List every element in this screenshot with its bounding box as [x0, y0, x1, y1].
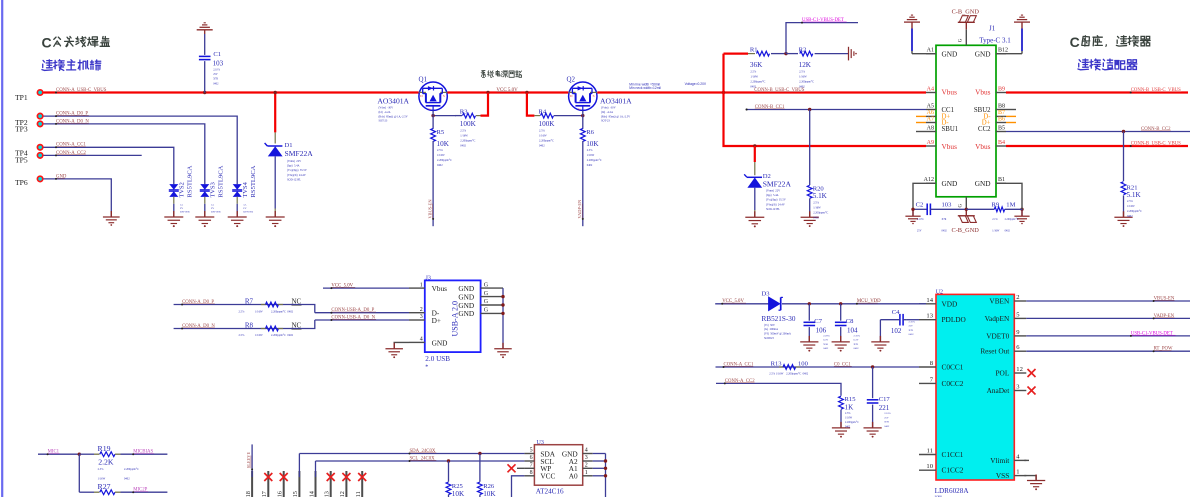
- svg-text:12: 12: [1016, 366, 1023, 373]
- svg-text:1/16W: 1/16W: [437, 154, 445, 157]
- svg-text:13: 13: [926, 313, 933, 320]
- svg-text:AO3401A: AO3401A: [600, 97, 632, 106]
- svg-text:SOD-123FL: SOD-123FL: [287, 178, 301, 181]
- svg-text:(Rds) 85mΩ @ 1A,-2.5V: (Rds) 85mΩ @ 1A,-2.5V: [379, 115, 408, 118]
- svg-text:2.5%: 2.5%: [98, 468, 104, 471]
- svg-text:103: 103: [213, 59, 224, 67]
- svg-text:AnaDet: AnaDet: [987, 386, 1010, 395]
- svg-text:MCU_VDD: MCU_VDD: [857, 299, 881, 304]
- svg-text:D3: D3: [762, 291, 771, 298]
- svg-text:C8: C8: [846, 318, 854, 325]
- svg-text:SLEEVE: SLEEVE: [246, 452, 251, 469]
- svg-text:2.200ppm/°C: 2.200ppm/°C: [813, 211, 828, 214]
- svg-text:2.5% 1/16W 2.200ppm/°C 040: 2.5% 1/16W 2.200ppm/°C 0402: [769, 372, 809, 375]
- svg-text:(Io) 200mA: (Io) 200mA: [764, 328, 778, 331]
- svg-text:VADP-EN: VADP-EN: [1154, 314, 1175, 319]
- svg-text:0402: 0402: [1005, 230, 1011, 233]
- svg-text:VCC: VCC: [540, 472, 555, 481]
- svg-text:1/16W: 1/16W: [539, 135, 547, 138]
- svg-text:C1CC1: C1CC1: [942, 450, 964, 459]
- svg-text:11: 11: [927, 448, 933, 455]
- svg-text:5: 5: [530, 448, 533, 454]
- svg-text:10K: 10K: [586, 140, 599, 148]
- svg-text:102: 102: [891, 327, 902, 335]
- svg-text:D1: D1: [285, 142, 293, 149]
- svg-text:GND: GND: [975, 50, 991, 59]
- svg-text:DFP1006: DFP1006: [180, 210, 190, 213]
- svg-text:CONN-USB-A_D0_N: CONN-USB-A_D0_N: [331, 315, 375, 320]
- svg-text:SMF22A: SMF22A: [763, 179, 792, 188]
- svg-text:GND: GND: [56, 174, 67, 179]
- svg-text:2.200ppm/°C: 2.200ppm/°C: [437, 159, 452, 162]
- svg-text:6: 6: [530, 455, 533, 461]
- svg-text:CONN-A_D0_N: CONN-A_D0_N: [182, 324, 215, 329]
- svg-text:A6: A6: [927, 110, 934, 116]
- svg-text:Vbus: Vbus: [432, 284, 448, 293]
- svg-text:1/16W: 1/16W: [587, 154, 595, 157]
- svg-text:B1: B1: [998, 177, 1005, 183]
- svg-text:25V: 25V: [884, 416, 889, 419]
- svg-text:1/16W: 1/16W: [255, 310, 263, 313]
- svg-text:B7: B7: [998, 110, 1005, 116]
- svg-text:0402: 0402: [587, 164, 593, 167]
- svg-text:1/16W: 1/16W: [98, 478, 106, 481]
- svg-text:(Vdss) -30V: (Vdss) -30V: [379, 107, 394, 110]
- svg-text:0402: 0402: [845, 426, 851, 429]
- svg-text:Min neck width=12mil: Min neck width=12mil: [629, 86, 661, 90]
- svg-text:36K: 36K: [750, 61, 763, 69]
- svg-text:2.5%: 2.5%: [750, 71, 756, 74]
- svg-text:J1: J1: [989, 24, 996, 32]
- svg-text:2.5%: 2.5%: [845, 412, 851, 415]
- svg-text:(Vc@Ipp) 35.5V: (Vc@Ipp) 35.5V: [766, 199, 786, 202]
- svg-text:CONN-B_USB-C_VBUS: CONN-B_USB-C_VBUS: [1131, 88, 1181, 93]
- svg-text:RS5TL9CA: RS5TL9CA: [218, 165, 225, 197]
- svg-text:14: 14: [926, 297, 933, 304]
- svg-text:12: 12: [339, 491, 346, 497]
- svg-text:CONN-A_CC1: CONN-A_CC1: [724, 362, 754, 367]
- svg-text:NC: NC: [292, 321, 302, 329]
- svg-text:CONN-A_CC2: CONN-A_CC2: [725, 379, 755, 384]
- svg-text:TP6: TP6: [15, 178, 28, 187]
- svg-text:B6: B6: [998, 116, 1005, 122]
- svg-text:3: 3: [585, 455, 588, 461]
- svg-text:18: 18: [245, 491, 252, 497]
- svg-text:(Ipp) 5.4A: (Ipp) 5.4A: [287, 165, 300, 168]
- svg-text:2: 2: [420, 307, 423, 313]
- svg-text:10K: 10K: [452, 490, 465, 497]
- svg-text:Vbus: Vbus: [975, 142, 991, 151]
- svg-text:(Rds) 85mΩ @ 1A,-2.5V: (Rds) 85mΩ @ 1A,-2.5V: [601, 115, 630, 118]
- svg-text:2.200ppm/°C: 2.200ppm/°C: [460, 140, 475, 143]
- svg-text:0402: 0402: [884, 425, 890, 428]
- svg-text:7: 7: [530, 463, 533, 469]
- svg-text:221: 221: [879, 404, 890, 412]
- svg-text:0402: 0402: [213, 82, 219, 85]
- svg-text:A4: A4: [927, 86, 934, 92]
- svg-text:DFP1006: DFP1006: [211, 210, 221, 213]
- svg-text:POL: POL: [996, 369, 1010, 378]
- svg-text:2.10%: 2.10%: [917, 218, 925, 221]
- svg-text:2.200ppm/°C: 2.200ppm/°C: [845, 421, 859, 424]
- svg-text:R2: R2: [799, 46, 807, 53]
- svg-text:(Vrms) 22V: (Vrms) 22V: [287, 160, 301, 163]
- svg-text:100K: 100K: [539, 120, 556, 128]
- svg-text:100K: 100K: [460, 120, 477, 128]
- svg-text:CONN-B_USB-C_VBUS: CONN-B_USB-C_VBUS: [754, 88, 804, 93]
- svg-text:CONN-USB-A_D0_P: CONN-USB-A_D0_P: [331, 308, 374, 313]
- svg-text:(Id) -4.2A: (Id) -4.2A: [379, 111, 391, 114]
- svg-text:J3: J3: [426, 276, 431, 282]
- svg-text:C0CC1: C0CC1: [942, 363, 964, 372]
- svg-text:U2: U2: [936, 290, 943, 296]
- svg-text:RB521S-30: RB521S-30: [762, 315, 796, 323]
- svg-text:AT24C16: AT24C16: [536, 488, 564, 496]
- svg-text:VBUS-EN: VBUS-EN: [428, 199, 433, 219]
- svg-text:A1: A1: [927, 48, 934, 54]
- svg-text:2.200ppm/°C: 2.200ppm/°C: [1127, 210, 1142, 213]
- svg-text:2.5%: 2.5%: [437, 149, 443, 152]
- svg-text:VBEN: VBEN: [989, 297, 1010, 306]
- svg-text:1/16W: 1/16W: [845, 416, 853, 419]
- svg-text:CONN-A_CC2: CONN-A_CC2: [56, 151, 86, 156]
- svg-text:2.200ppm/°C: 2.200ppm/°C: [1005, 218, 1019, 221]
- svg-text:2.2K: 2.2K: [98, 457, 114, 466]
- svg-text:GND: GND: [458, 309, 474, 318]
- svg-text:14: 14: [308, 491, 315, 497]
- svg-text:X7R: X7R: [213, 78, 218, 81]
- svg-text:Type-C 3.1: Type-C 3.1: [979, 36, 1011, 44]
- svg-text:SOT-23: SOT-23: [601, 120, 610, 123]
- svg-text:CONN-B_CC2: CONN-B_CC2: [1141, 127, 1171, 132]
- svg-text:R9: R9: [992, 201, 1000, 208]
- svg-text:2.200ppm/°C 0402: 2.200ppm/°C 0402: [271, 334, 294, 337]
- svg-text:(Vbr@It) 24.4V: (Vbr@It) 24.4V: [287, 174, 306, 177]
- svg-text:C0_CC1: C0_CC1: [834, 362, 851, 367]
- svg-text:2.10%: 2.10%: [884, 412, 890, 415]
- svg-text:C4: C4: [892, 309, 900, 316]
- svg-text:MICBIAS: MICBIAS: [133, 450, 153, 455]
- svg-text:(Vc@Ipp) 35.5V: (Vc@Ipp) 35.5V: [287, 169, 307, 172]
- svg-text:X7R: X7R: [884, 421, 889, 424]
- svg-text:NC: NC: [292, 297, 302, 305]
- svg-text:3: 3: [420, 314, 423, 320]
- svg-text:Vlimit: Vlimit: [990, 456, 1009, 465]
- svg-text:Vbus: Vbus: [942, 142, 958, 151]
- svg-text:VSS: VSS: [996, 471, 1009, 480]
- svg-text:(Vr) 30V: (Vr) 30V: [764, 324, 775, 327]
- svg-text:X5R: X5R: [823, 343, 828, 346]
- svg-text:SDA_24C0X: SDA_24C0X: [410, 449, 436, 454]
- svg-text:6.3V: 6.3V: [823, 339, 828, 342]
- svg-text:B8: B8: [998, 103, 1005, 109]
- svg-text:2: 2: [1016, 294, 1019, 301]
- svg-text:2.200ppm/°C 0402: 2.200ppm/°C 0402: [271, 310, 294, 313]
- svg-text:25V: 25V: [909, 325, 914, 328]
- svg-text:1: 1: [585, 470, 588, 476]
- svg-text:R8: R8: [245, 321, 254, 329]
- svg-text:C: C: [42, 34, 52, 50]
- svg-text:TP3: TP3: [15, 125, 28, 134]
- svg-text:GND: GND: [942, 50, 958, 59]
- svg-text:R5: R5: [437, 129, 445, 136]
- svg-text:2.0 USB: 2.0 USB: [425, 355, 450, 363]
- svg-text:R4: R4: [539, 109, 547, 116]
- svg-text:1: 1: [420, 282, 423, 288]
- svg-text:11: 11: [355, 491, 362, 497]
- svg-text:2.5%: 2.5%: [587, 149, 593, 152]
- svg-text:Vbus: Vbus: [975, 88, 991, 97]
- svg-text:RS5TL9CA: RS5TL9CA: [250, 165, 257, 197]
- svg-text:SOT-23: SOT-23: [379, 120, 388, 123]
- svg-text:TP1: TP1: [15, 93, 28, 102]
- svg-text:1/16W: 1/16W: [460, 135, 468, 138]
- svg-text:GND: GND: [942, 179, 958, 188]
- svg-text:C0CC2: C0CC2: [942, 379, 964, 388]
- svg-text:R27: R27: [98, 482, 111, 491]
- svg-text:SOD-123FL: SOD-123FL: [766, 208, 780, 211]
- svg-text:GND: GND: [432, 338, 448, 347]
- svg-text:0402: 0402: [942, 230, 948, 233]
- svg-text:RS5TL9CA: RS5TL9CA: [187, 165, 194, 197]
- svg-text:C1: C1: [213, 51, 221, 58]
- svg-text:VADP-EN: VADP-EN: [577, 199, 582, 219]
- svg-text:MIC1: MIC1: [48, 450, 60, 455]
- svg-text:B5: B5: [998, 125, 1005, 131]
- svg-text:R15: R15: [845, 396, 857, 403]
- svg-text:(Vrms) 22V: (Vrms) 22V: [766, 190, 780, 193]
- svg-text:SMF22A: SMF22A: [285, 149, 314, 158]
- svg-text:(Vdss) -30V: (Vdss) -30V: [601, 107, 616, 110]
- svg-text:TVS3: TVS3: [209, 182, 216, 197]
- svg-text:2.5%: 2.5%: [239, 334, 245, 337]
- svg-text:1: 1: [1016, 469, 1019, 476]
- svg-text:4: 4: [585, 448, 588, 454]
- svg-text:RT_POW: RT_POW: [1154, 347, 1173, 352]
- svg-text:Vbus: Vbus: [942, 88, 958, 97]
- svg-text:X7R: X7R: [854, 343, 859, 346]
- svg-text:VBUS-EN: VBUS-EN: [1154, 296, 1175, 301]
- svg-text:2.10%: 2.10%: [909, 321, 915, 324]
- svg-text:1/16W: 1/16W: [992, 230, 1000, 233]
- svg-text:2.200ppm/°C: 2.200ppm/°C: [799, 81, 814, 84]
- svg-text:VCC_5.0V: VCC_5.0V: [331, 284, 353, 289]
- svg-text:A12: A12: [924, 177, 934, 183]
- svg-text:2: 2: [585, 463, 588, 469]
- svg-text:0402: 0402: [909, 333, 915, 336]
- svg-text:MIC2P: MIC2P: [133, 488, 147, 493]
- svg-text:2.5%: 2.5%: [799, 71, 805, 74]
- svg-text:1K: 1K: [845, 404, 855, 412]
- svg-text:VDET0: VDET0: [986, 331, 1009, 340]
- svg-text:G: G: [484, 282, 489, 288]
- svg-text:0402: 0402: [813, 216, 819, 219]
- svg-text:2.200ppm/°C: 2.200ppm/°C: [587, 159, 602, 162]
- svg-text:AO3401A: AO3401A: [377, 97, 409, 106]
- svg-text:25V: 25V: [213, 73, 218, 76]
- svg-text:Reset Out: Reset Out: [980, 347, 1009, 356]
- svg-text:2.5%: 2.5%: [1127, 200, 1133, 203]
- svg-text:2.5%: 2.5%: [460, 130, 466, 133]
- svg-text:R7: R7: [245, 297, 254, 305]
- svg-text:8: 8: [530, 470, 533, 476]
- svg-text:D+: D+: [432, 316, 441, 325]
- svg-text:0402: 0402: [823, 347, 829, 350]
- svg-text:C-B_GND: C-B_GND: [952, 227, 980, 234]
- svg-text:104: 104: [847, 326, 858, 334]
- svg-text:PDLDO: PDLDO: [942, 315, 966, 324]
- svg-text:103: 103: [942, 201, 953, 208]
- svg-text:5.1K: 5.1K: [1127, 191, 1142, 199]
- svg-text:2.1%: 2.1%: [992, 218, 998, 221]
- svg-text:G: G: [484, 299, 489, 305]
- svg-text:1/16W: 1/16W: [750, 76, 758, 79]
- svg-text:DFP1006: DFP1006: [243, 210, 253, 213]
- svg-text:Q2: Q2: [567, 76, 576, 84]
- svg-text:2.200ppm/°C: 2.200ppm/°C: [750, 81, 765, 84]
- svg-text:R3: R3: [460, 109, 468, 116]
- svg-text:VCC 5.0V: VCC 5.0V: [496, 88, 518, 93]
- svg-text:G: G: [959, 204, 964, 208]
- svg-text:6.3V: 6.3V: [854, 339, 859, 342]
- svg-text:15: 15: [292, 491, 299, 497]
- svg-text:CONN-A_CC1: CONN-A_CC1: [56, 143, 86, 148]
- svg-text:SCL_24C0X: SCL_24C0X: [410, 456, 436, 461]
- svg-text:C-B_GND: C-B_GND: [952, 8, 980, 15]
- svg-text:VadpEN: VadpEN: [985, 314, 1010, 323]
- svg-text:2.5%: 2.5%: [239, 310, 245, 313]
- svg-text:CONN-B_CC1: CONN-B_CC1: [755, 105, 785, 110]
- svg-text:X7R: X7R: [942, 218, 947, 221]
- svg-text:Voltage=0.20V: Voltage=0.20V: [685, 82, 707, 86]
- svg-text:SBU1: SBU1: [942, 126, 959, 133]
- svg-text:0402: 0402: [1127, 215, 1133, 218]
- svg-text:2.10%: 2.10%: [854, 335, 860, 338]
- svg-text:2.5%: 2.5%: [539, 130, 545, 133]
- svg-text:CC2: CC2: [978, 126, 991, 133]
- svg-text:G: G: [959, 38, 964, 42]
- svg-text:USB-C1-VBUS-DET: USB-C1-VBUS-DET: [1131, 331, 1173, 336]
- svg-text:G: G: [484, 291, 489, 297]
- svg-text:CONN-B_USB-C_VBUS: CONN-B_USB-C_VBUS: [1131, 141, 1181, 146]
- svg-text:C7: C7: [814, 318, 822, 325]
- svg-text:VDD: VDD: [942, 299, 958, 308]
- svg-text:A0: A0: [569, 472, 578, 481]
- svg-text:10K: 10K: [483, 490, 496, 497]
- svg-text:R19: R19: [98, 444, 111, 453]
- svg-text:(Vf) 500mV @ 200mA: (Vf) 500mV @ 200mA: [764, 333, 791, 336]
- svg-text:C17: C17: [879, 396, 891, 403]
- svg-text:(Ipp) 5.4A: (Ipp) 5.4A: [766, 194, 779, 197]
- svg-text:13: 13: [324, 491, 331, 497]
- svg-text:B9: B9: [998, 86, 1005, 92]
- svg-text:B4: B4: [998, 140, 1005, 146]
- svg-text:X7R: X7R: [909, 329, 914, 332]
- svg-text:Q1: Q1: [419, 76, 428, 84]
- svg-text:CONN-A_D0_P: CONN-A_D0_P: [56, 112, 88, 117]
- svg-text:VCC_5.0V: VCC_5.0V: [722, 299, 744, 304]
- svg-text:(Vbr@It) 24.4V: (Vbr@It) 24.4V: [766, 203, 785, 206]
- svg-text:C2: C2: [916, 201, 924, 208]
- svg-text:16: 16: [277, 491, 284, 497]
- svg-text:17: 17: [261, 491, 268, 497]
- svg-text:R13: R13: [771, 360, 783, 367]
- svg-text:1M: 1M: [1006, 201, 1015, 208]
- svg-text:2.200ppm/°C: 2.200ppm/°C: [124, 468, 139, 471]
- svg-text:0402: 0402: [437, 164, 443, 167]
- svg-text:TVS4: TVS4: [242, 181, 249, 197]
- svg-text:LDR6028A: LDR6028A: [935, 487, 970, 495]
- svg-text:1/16W: 1/16W: [813, 206, 821, 209]
- svg-text:12K: 12K: [799, 61, 812, 69]
- svg-text:0402: 0402: [854, 347, 860, 350]
- svg-text:B12: B12: [998, 48, 1008, 54]
- svg-text:0402: 0402: [539, 145, 545, 148]
- svg-text:0402: 0402: [460, 145, 466, 148]
- svg-text:USB-C1-VBUS-DET: USB-C1-VBUS-DET: [802, 18, 844, 23]
- svg-text:C1CC2: C1CC2: [942, 466, 964, 475]
- svg-text:SOD523: SOD523: [764, 337, 774, 340]
- svg-text:1/16W: 1/16W: [255, 334, 263, 337]
- svg-text:106: 106: [816, 326, 827, 334]
- svg-text:25V: 25V: [917, 230, 922, 233]
- svg-text:A9: A9: [927, 140, 934, 146]
- svg-text:S: S: [593, 94, 595, 98]
- svg-text:10: 10: [926, 463, 933, 470]
- svg-text:A7: A7: [927, 116, 934, 122]
- svg-text:1/16W: 1/16W: [1127, 205, 1135, 208]
- svg-text:(Id) -4.2A: (Id) -4.2A: [601, 111, 613, 114]
- svg-text:2.200ppm/°C: 2.200ppm/°C: [539, 140, 554, 143]
- svg-text:A8: A8: [927, 125, 934, 131]
- svg-text:1/16W: 1/16W: [799, 76, 807, 79]
- svg-text:U3: U3: [537, 440, 544, 446]
- svg-text:2.5%: 2.5%: [813, 201, 819, 204]
- svg-text:CONN-A_USB-C_VBUS: CONN-A_USB-C_VBUS: [56, 88, 107, 93]
- svg-text:100: 100: [798, 360, 809, 367]
- svg-text:4: 4: [420, 337, 423, 343]
- svg-text:TP5: TP5: [15, 156, 28, 165]
- svg-text:G: G: [484, 308, 489, 314]
- svg-text:A5: A5: [927, 103, 934, 109]
- svg-text:2.20%: 2.20%: [823, 335, 829, 338]
- svg-text:0402: 0402: [124, 478, 130, 481]
- svg-text:R6: R6: [586, 129, 594, 136]
- svg-text:5.1K: 5.1K: [813, 192, 828, 200]
- svg-text:C: C: [1070, 34, 1080, 50]
- svg-text:2.10%: 2.10%: [213, 69, 221, 72]
- svg-text:10K: 10K: [437, 140, 450, 148]
- svg-text:CONN-A_D0_N: CONN-A_D0_N: [56, 119, 89, 124]
- svg-text:CONN-A_D0_P: CONN-A_D0_P: [182, 300, 214, 305]
- svg-text:TVS2: TVS2: [178, 182, 185, 197]
- svg-text:*: *: [425, 364, 428, 370]
- svg-text:R1: R1: [750, 46, 758, 53]
- svg-text:S: S: [443, 94, 445, 98]
- svg-text:GND: GND: [975, 179, 991, 188]
